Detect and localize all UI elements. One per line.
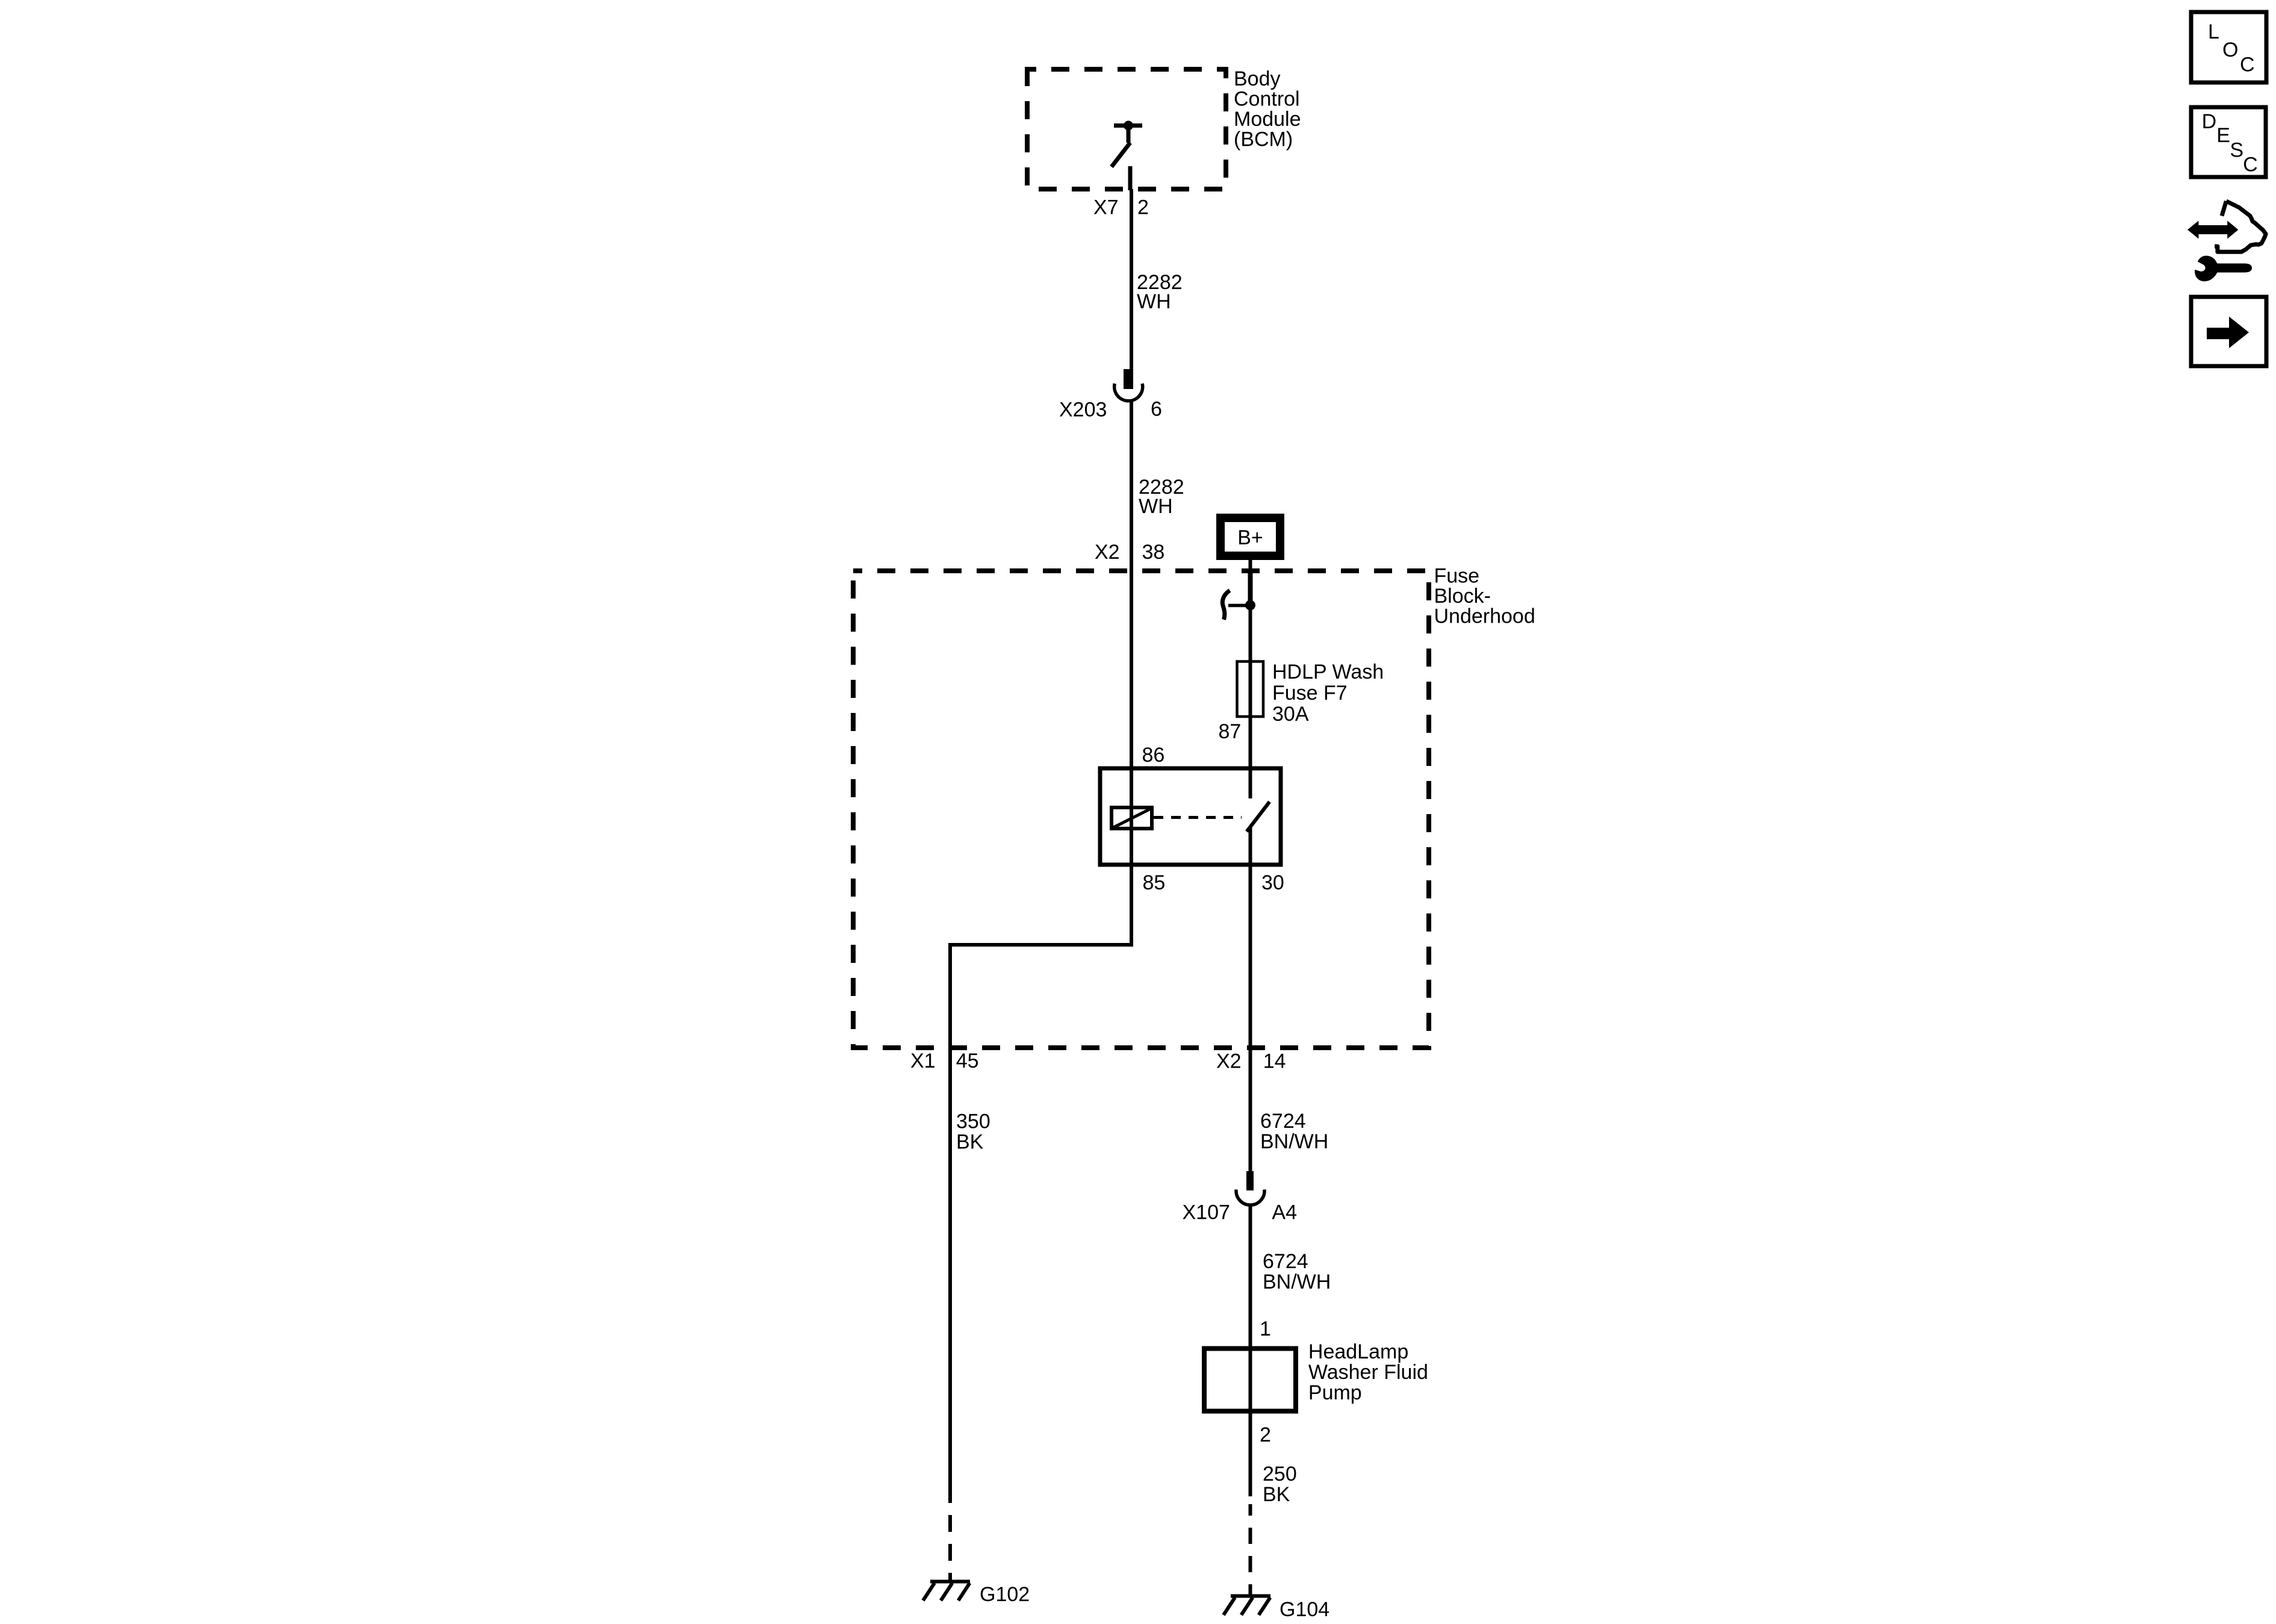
- svg-text:Control: Control: [1234, 88, 1300, 111]
- B+ power symbol: [1216, 514, 1284, 560]
- svg-text:G104: G104: [1279, 1598, 1329, 1621]
- LOC icon box: [2191, 12, 2266, 82]
- svg-text:WH: WH: [1139, 495, 1173, 518]
- svg-text:BK: BK: [956, 1131, 984, 1154]
- wire label 6724 BN/WH: [1263, 1250, 1331, 1293]
- svg-text:2: 2: [1137, 196, 1149, 219]
- wrench icon: [2195, 256, 2252, 282]
- wire dashed segment to G104: [1249, 1504, 1252, 1595]
- switch (BCM internal driver): [1112, 121, 1142, 191]
- svg-text:A4: A4: [1272, 1201, 1297, 1224]
- svg-text:Module: Module: [1234, 108, 1301, 131]
- Fuse Block label: [1434, 565, 1535, 628]
- svg-text:C: C: [2243, 154, 2258, 176]
- svg-text:X7: X7: [1093, 196, 1119, 219]
- wire label 2282 WH: [1139, 476, 1184, 518]
- inline connector X107 pin A4: [1183, 1171, 1297, 1224]
- svg-text:14: 14: [1263, 1050, 1286, 1073]
- svg-text:HeadLamp: HeadLamp: [1308, 1340, 1408, 1363]
- svg-text:Pump: Pump: [1308, 1381, 1362, 1404]
- svg-text:BN/WH: BN/WH: [1263, 1271, 1331, 1293]
- connector label X1 pin 45: [910, 1050, 979, 1072]
- ground G102: [923, 1582, 1030, 1607]
- svg-text:S: S: [2230, 139, 2243, 162]
- svg-text:L: L: [2208, 20, 2219, 43]
- svg-text:30: 30: [1261, 871, 1284, 894]
- svg-text:X1: X1: [910, 1050, 936, 1072]
- svg-text:BK: BK: [1263, 1483, 1290, 1506]
- svg-text:X2: X2: [1095, 541, 1120, 564]
- svg-text:86: 86: [1142, 744, 1165, 767]
- svg-text:G102: G102: [980, 1583, 1030, 1606]
- Fuse Block - Underhood dashed box: [853, 571, 1429, 1048]
- svg-text:HDLP Wash: HDLP Wash: [1272, 661, 1384, 683]
- svg-text:Washer Fluid: Washer Fluid: [1308, 1361, 1428, 1384]
- svg-text:45: 45: [956, 1050, 979, 1072]
- svg-text:WH: WH: [1137, 290, 1171, 313]
- svg-text:350: 350: [956, 1110, 990, 1133]
- svg-text:X107: X107: [1183, 1201, 1230, 1224]
- svg-text:Body: Body: [1234, 67, 1281, 90]
- connection tab symbol: [1222, 591, 1250, 620]
- wire 6724 BN/WH (X107 to pump, through pump to pin 2): [1249, 1204, 1252, 1496]
- wire 2282 WH (X203 to fuse block X2-38, through relay coil to pin 85): [1130, 400, 1133, 945]
- pump label: [1308, 1340, 1428, 1404]
- svg-text:6: 6: [1151, 398, 1162, 421]
- svg-text:Fuse: Fuse: [1434, 565, 1480, 588]
- vehicle double-arrow icon: [2187, 201, 2266, 252]
- svg-text:X203: X203: [1059, 399, 1107, 422]
- inline connector X203 pin 6: [1059, 369, 1162, 422]
- svg-text:2: 2: [1260, 1423, 1271, 1446]
- fuse label: [1272, 661, 1384, 726]
- svg-text:C: C: [2240, 54, 2255, 76]
- svg-text:38: 38: [1142, 541, 1165, 564]
- BCM dashed box: [1027, 69, 1226, 189]
- relay coil: [1112, 807, 1152, 829]
- junction node (B+ tap): [1245, 600, 1255, 611]
- svg-text:6724: 6724: [1263, 1250, 1308, 1273]
- svg-text:1: 1: [1260, 1318, 1271, 1340]
- svg-text:X2: X2: [1216, 1050, 1242, 1073]
- forward arrow icon box: [2191, 297, 2266, 366]
- svg-text:Fuse F7: Fuse F7: [1272, 682, 1348, 705]
- svg-text:Block-: Block-: [1434, 585, 1491, 608]
- svg-text:(BCM): (BCM): [1234, 128, 1293, 151]
- svg-text:250: 250: [1263, 1463, 1297, 1486]
- svg-text:D: D: [2202, 110, 2217, 133]
- wire B+ feed into fuse block, through fuse to relay pin 30 contact: [1249, 560, 1252, 798]
- wire label 350 BK: [956, 1110, 990, 1154]
- relay K (HDLP washer relay): [1100, 768, 1281, 865]
- wire label 2282 WH: [1137, 271, 1183, 313]
- relay actuation dashed link: [1154, 816, 1242, 819]
- wire relay 30 contact to X2-14 and on to X107: [1249, 827, 1252, 1173]
- svg-text:BN/WH: BN/WH: [1260, 1130, 1328, 1153]
- fuse F7 (HDLP Wash 30A): [1237, 662, 1264, 717]
- wire dashed segment to G102: [948, 1515, 952, 1582]
- relay contact switch: [1247, 802, 1270, 832]
- DESC icon box: [2191, 107, 2266, 177]
- svg-text:87: 87: [1219, 720, 1242, 743]
- ground G104: [1224, 1596, 1329, 1622]
- wire relay 85 to X1-45 (ground path): [950, 945, 1133, 1048]
- BCM label: [1234, 67, 1301, 151]
- wire 350 BK (X1-45 to G102): [948, 1048, 952, 1503]
- connector label X2 pin 14: [1216, 1050, 1286, 1073]
- svg-text:6724: 6724: [1260, 1110, 1306, 1133]
- HeadLamp Washer Fluid Pump box: [1204, 1349, 1296, 1411]
- wire label 6724 BN/WH: [1260, 1110, 1328, 1153]
- wire 2282 WH (BCM to X203): [1130, 189, 1133, 370]
- svg-text:E: E: [2216, 124, 2230, 147]
- connector label X7 pin 2: [1093, 196, 1149, 219]
- svg-text:O: O: [2222, 39, 2238, 61]
- connector label X2 pin 38: [1095, 541, 1164, 564]
- wire label 250 BK: [1263, 1463, 1297, 1506]
- svg-text:30A: 30A: [1272, 703, 1309, 726]
- svg-text:85: 85: [1143, 871, 1166, 894]
- svg-text:B+: B+: [1237, 526, 1263, 549]
- svg-text:Underhood: Underhood: [1434, 605, 1535, 628]
